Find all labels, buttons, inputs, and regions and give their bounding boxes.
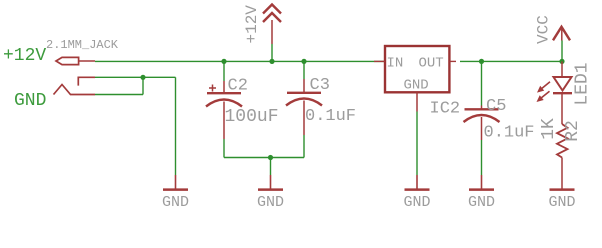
svg-text:GND: GND: [162, 194, 189, 211]
net label +12V (left): [3, 46, 46, 66]
regulator IC2 pin name GND: [404, 78, 429, 94]
svg-text:2.1MM_JACK: 2.1MM_JACK: [46, 38, 119, 52]
capacitor C5 name label: [486, 97, 506, 116]
capacitor C5 straight plate: [465, 108, 499, 110]
connector J1 sleeve contact (caret): [54, 85, 96, 95]
junction node C2 top: [221, 59, 226, 64]
supply symbol +12V stem: [271, 20, 273, 44]
ground symbol 3 label: [403, 194, 430, 211]
regulator IC2 OUT pin stub: [450, 60, 457, 62]
svg-text:GND: GND: [14, 91, 46, 111]
svg-text:+12V: +12V: [243, 5, 261, 44]
ground symbol 2 bar: [258, 188, 283, 191]
wire GND net: vertical tie at x=143: [142, 77, 144, 94]
regulator IC2 name label: [430, 100, 461, 119]
regulator IC2 pin name OUT: [419, 56, 444, 72]
ground symbol 4 bar: [469, 188, 494, 191]
svg-text:LED1: LED1: [573, 62, 593, 105]
capacitor C3 straight plate: [287, 92, 321, 94]
wire VCC net: IC2 OUT to LED column: [460, 60, 562, 62]
wire C5 top lead (net part): [481, 61, 483, 105]
wire GND net: down to GND symbol 1: [175, 77, 177, 175]
connector J1 tip pin stub: [79, 60, 95, 62]
capacitor C2 bottom pin: [223, 102, 225, 140]
svg-text:C2: C2: [228, 77, 248, 96]
wire GND rail under C2 C3: [224, 157, 304, 159]
supply symbol +12V double chevron: [263, 5, 281, 23]
diode LED1 name label (rotated): [573, 62, 593, 105]
svg-text:R2: R2: [563, 120, 583, 142]
resistor R2 name label (rotated): [563, 120, 583, 142]
svg-text:GND: GND: [404, 78, 429, 94]
ground symbol 4 label: [468, 194, 495, 211]
wire +12V net: jack tip to IC2 IN: [95, 60, 385, 62]
wire VCC net: supply pin down to LED node: [561, 41, 563, 62]
junction node +12V supply stem: [269, 59, 274, 64]
svg-text:OUT: OUT: [419, 56, 444, 72]
resistor R2 zigzag: [557, 124, 568, 158]
wire GND net: jack sleeve to vertical: [95, 94, 143, 96]
regulator IC2 GND pin stub: [416, 92, 418, 111]
net label GND (left): [14, 91, 46, 111]
ground symbol 3 bar: [405, 188, 430, 191]
junction node C5 top: [479, 59, 484, 64]
capacitor C3 name label: [310, 76, 330, 95]
svg-text:C3: C3: [310, 76, 330, 95]
capacitor C2 straight plate: [207, 92, 241, 94]
junction node jack GND tie: [140, 75, 145, 80]
capacitor C5 top pin: [481, 106, 483, 110]
resistor R2 bottom lead: [561, 158, 563, 190]
capacitor C5 bottom pin: [481, 117, 483, 140]
capacitor C5 value label 0.1uF: [484, 124, 535, 143]
diode LED1 light arrow 2: [537, 91, 550, 102]
capacitor C2 name label: [228, 77, 248, 96]
wire +12V supply stem (net part): [271, 44, 273, 61]
regulator IC2 body: [385, 46, 449, 92]
ground symbol 3 stem: [416, 175, 418, 189]
junction node GND rail: [268, 155, 273, 160]
svg-text:0.1uF: 0.1uF: [484, 124, 535, 143]
wire C2 top lead (net part): [223, 61, 225, 81]
ground symbol 1 label: [162, 194, 189, 211]
wire C2 bottom to GND rail: [223, 139, 225, 158]
svg-text:+12V: +12V: [3, 46, 46, 66]
capacitor C3 curved plate: [286, 99, 322, 106]
connector J1 break contact: [78, 77, 95, 85]
ground symbol 5 bar: [550, 188, 575, 191]
ground symbol 1 stem: [175, 175, 177, 189]
svg-text:1K: 1K: [539, 118, 559, 140]
junction node C3 top: [301, 59, 306, 64]
wire C3 top lead (net part): [303, 61, 305, 79]
regulator IC2 IN pin stub: [374, 60, 385, 62]
svg-text:GND: GND: [403, 194, 430, 211]
svg-text:IN: IN: [387, 56, 404, 72]
diode LED1 anode lead: [561, 61, 563, 77]
supply symbol VCC arrow head: [553, 27, 570, 41]
ground symbol 2 stem: [270, 175, 272, 189]
capacitor C3 bottom pin: [303, 101, 305, 136]
diode LED1 triangle: [554, 77, 572, 91]
ground symbol 1 bar: [163, 188, 188, 191]
supply label VCC (rotated): [535, 15, 553, 44]
wire GND net: jack break pin to junction: [95, 76, 176, 78]
svg-text:GND: GND: [468, 194, 495, 211]
resistor R2 value label 1K (rotated): [539, 118, 559, 140]
diode LED1 light arrow 1: [537, 82, 550, 93]
ground symbol 4 stem: [481, 175, 483, 189]
ground symbol 2 label: [257, 194, 284, 211]
capacitor C2 value label 100uF: [225, 107, 279, 127]
wire C5 bottom to ground: [481, 140, 483, 175]
capacitor C3 value label 0.1uF: [305, 107, 356, 126]
wire IC2 GND to ground: [416, 112, 418, 176]
capacitor C2 plus sign: [209, 85, 216, 92]
svg-text:C5: C5: [486, 97, 506, 116]
supply symbol VCC stem: [561, 28, 563, 41]
capacitor C5 curved plate: [464, 115, 500, 122]
wire C3 bottom to GND rail: [303, 135, 305, 158]
connector J1 2.1MM_JACK name label: [46, 38, 119, 52]
regulator IC2 pin name IN: [387, 56, 404, 72]
capacitor C3 top pin: [303, 79, 305, 93]
svg-text:GND: GND: [548, 194, 575, 211]
capacitor C2 curved plate: [206, 100, 242, 107]
wire LED1 cathode to R2: [561, 93, 563, 124]
connector J1 tip pin (pentagon): [56, 57, 79, 64]
ground symbol 5 label: [548, 194, 575, 211]
svg-text:0.1uF: 0.1uF: [305, 107, 356, 126]
supply label +12V (rotated): [243, 5, 261, 44]
svg-text:VCC: VCC: [535, 15, 553, 44]
svg-text:IC2: IC2: [430, 100, 461, 119]
diode LED1 cathode bar: [553, 92, 572, 94]
svg-text:GND: GND: [257, 194, 284, 211]
capacitor C2 top pin: [223, 81, 225, 93]
wire GND rail to GND symbol 2: [270, 158, 272, 176]
svg-text:100uF: 100uF: [225, 107, 279, 127]
junction node LED/VCC: [559, 59, 564, 64]
